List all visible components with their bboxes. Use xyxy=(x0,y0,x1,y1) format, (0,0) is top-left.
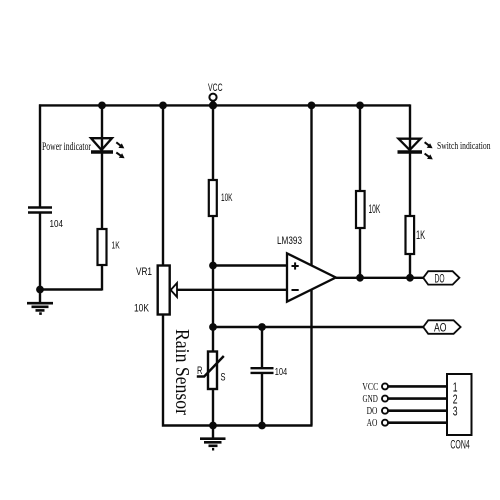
wire C2 branch xyxy=(261,327,263,368)
CON4 pin line VCC xyxy=(388,385,447,388)
LED D2 arrowheads xyxy=(427,143,433,159)
wire rain sensor bottom to ground xyxy=(212,389,214,438)
CON4 pin circle GND xyxy=(382,396,388,402)
svg-text:DO: DO xyxy=(435,273,445,285)
wire C2 bottom xyxy=(261,374,263,426)
wire VCC branch down R2 xyxy=(212,105,214,180)
svg-text:DO: DO xyxy=(367,406,378,417)
wire top VCC rail xyxy=(39,104,410,106)
svg-text:GND: GND xyxy=(363,394,378,405)
svg-text:1K: 1K xyxy=(416,228,425,242)
AO tag shape xyxy=(423,320,460,334)
svg-text:S: S xyxy=(221,372,226,384)
CON4 pin circle VCC xyxy=(382,383,388,389)
svg-text:10K: 10K xyxy=(369,202,381,216)
wire R3 bottom to DO line xyxy=(359,228,361,278)
svg-text:VCC: VCC xyxy=(208,82,223,94)
svg-text:AO: AO xyxy=(434,323,447,335)
svg-text:R: R xyxy=(197,365,203,377)
CON4 pin circle AO xyxy=(382,420,388,426)
capacitor C1 plates xyxy=(28,208,52,213)
svg-text:Power indicator: Power indicator xyxy=(42,141,91,153)
LED D1 power xyxy=(91,138,122,156)
wire AO line xyxy=(213,326,423,328)
wire mid vertical from rail to bottom rail xyxy=(310,105,312,425)
wire right branch from rail to LED2 xyxy=(409,104,411,216)
VR1 wiper arrowhead xyxy=(171,283,177,297)
LED D1 arrowheads xyxy=(118,143,124,158)
CON4 pin circle DO xyxy=(382,408,388,414)
op-amp minus sign xyxy=(292,289,299,291)
ground GND1 xyxy=(27,303,53,313)
op-amp plus sign xyxy=(292,262,299,290)
wire VR1 branch top xyxy=(162,105,164,266)
svg-text:CON4: CON4 xyxy=(450,438,469,452)
rain sensor RS body xyxy=(208,352,217,390)
svg-text:3: 3 xyxy=(453,404,458,418)
wire LED1 branch top xyxy=(101,105,103,229)
svg-text:LM393: LM393 xyxy=(277,235,302,247)
LED D2 switch xyxy=(398,139,430,158)
wire R2 bottom through nodes to rain sensor xyxy=(212,216,214,352)
wire opamp plus input xyxy=(213,264,287,266)
svg-text:AO: AO xyxy=(367,418,378,429)
wire C1 bottom to ground node xyxy=(39,214,41,303)
wire R1 bottom xyxy=(101,265,103,291)
resistor R1 1K body xyxy=(98,229,107,265)
svg-text:10K: 10K xyxy=(221,192,233,204)
svg-text:104: 104 xyxy=(50,218,64,230)
capacitor C2 plates xyxy=(251,368,274,373)
CON4 pin line GND xyxy=(388,397,447,400)
resistor R3 10K body xyxy=(356,191,365,228)
DO tag shape xyxy=(423,271,459,284)
wire R4 bottom to DO line xyxy=(409,254,411,278)
CON4 pin line AO xyxy=(388,421,447,424)
svg-text:1K: 1K xyxy=(112,240,120,252)
svg-text:VR1: VR1 xyxy=(136,266,152,278)
svg-text:104: 104 xyxy=(275,366,288,378)
svg-text:Rain Sensor: Rain Sensor xyxy=(171,329,193,415)
wire R3 branch top xyxy=(359,105,361,191)
wire VR1 bottom to bottom rail xyxy=(163,315,313,426)
potentiometer VR1 body xyxy=(158,266,170,315)
wire opamp output DO line xyxy=(336,277,423,279)
wire bottom-left horizontal node to R1 xyxy=(40,288,102,290)
CON4 pin line DO xyxy=(388,409,447,412)
resistor R4 1K body xyxy=(406,216,415,254)
svg-text:10K: 10K xyxy=(134,303,150,315)
svg-text:Switch indication: Switch indication xyxy=(437,140,491,152)
VCC terminal circle xyxy=(209,94,216,101)
connector CON4 box xyxy=(447,374,472,435)
wire left branch down to C1 xyxy=(39,104,41,206)
resistor R2 10K body xyxy=(209,180,217,216)
svg-text:VCC: VCC xyxy=(362,382,378,393)
wire VR1 wiper to opamp minus input xyxy=(177,289,287,291)
ground GND2 xyxy=(200,439,226,450)
rain sensor diagonal xyxy=(197,356,224,377)
op-amp U1 LM393 xyxy=(287,253,336,301)
